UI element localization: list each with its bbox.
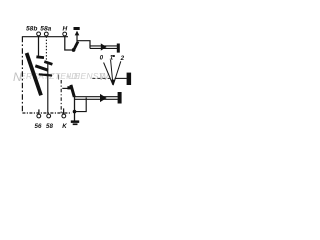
mechanical link dashes <box>92 77 111 79</box>
junction node H <box>72 48 76 52</box>
terminal 58b <box>37 32 41 36</box>
rotary position fan line 2 <box>113 61 121 85</box>
connector socket bar (right) <box>117 44 120 53</box>
junction node lower <box>73 110 77 114</box>
wire upper pair to connector <box>90 45 117 47</box>
lower contact stub <box>62 87 67 89</box>
watermark <box>13 70 110 84</box>
wire H drop <box>65 36 72 50</box>
rotary position fan line 0 <box>104 63 113 86</box>
wire tick terminal K <box>63 108 65 114</box>
terminal 56 <box>37 114 41 118</box>
connector plug arrow (lower) <box>100 94 107 102</box>
rotary position fan line 1 <box>111 60 113 85</box>
connector socket bar (top) <box>74 27 80 30</box>
svg-text:0: 0 <box>100 55 104 62</box>
terminal H <box>63 32 67 36</box>
wire bars to terminal 58 <box>47 63 49 114</box>
wire 58b drop <box>38 36 40 56</box>
position pointer arrow <box>111 80 115 86</box>
lower switch arm <box>71 85 74 97</box>
stub near bar3 <box>58 75 60 80</box>
lower contact dot <box>67 86 70 89</box>
terminal 58a <box>44 32 48 36</box>
wire lower pair to connector <box>75 96 118 98</box>
knob <box>127 73 132 85</box>
svg-text:58: 58 <box>46 123 53 130</box>
wire 58a dotted drop <box>45 37 47 61</box>
terminal K <box>62 114 66 118</box>
svg-text:56: 56 <box>35 123 42 130</box>
connector plug arrow (right) <box>101 43 107 50</box>
ground bar 2 <box>73 123 78 125</box>
wire branch to lower pair <box>75 98 87 112</box>
upper switch arm <box>74 42 78 51</box>
wire lower vertical <box>74 96 76 121</box>
svg-text:58b: 58b <box>26 26 37 33</box>
contact bar position 1 <box>44 62 52 65</box>
enclosure right edge (dashed, partial) <box>60 80 62 113</box>
contact bar position 3 <box>39 74 52 75</box>
ground bar 1 <box>71 120 79 123</box>
actuator shaft <box>115 77 127 79</box>
svg-text:K: K <box>62 123 67 130</box>
wire tick terminal 56 <box>38 109 40 114</box>
fixed contact bar 58b <box>36 55 44 59</box>
enclosure top edge <box>22 36 68 38</box>
switch wiper arm (main) <box>27 53 41 95</box>
svg-text:H: H <box>63 26 68 33</box>
contact bar position 2 <box>35 66 48 70</box>
enclosure bottom edge (dash-dot) <box>22 112 71 114</box>
svg-text:2: 2 <box>120 55 125 62</box>
position tick <box>113 55 115 57</box>
svg-text:58a: 58a <box>40 26 51 33</box>
enclosure left edge (dash-dot) <box>21 37 23 113</box>
connector socket bar (lower) <box>118 92 122 104</box>
wire plug stem to corner <box>77 35 90 49</box>
connector plug arrow (top) <box>75 31 80 36</box>
terminal 58 <box>47 114 51 118</box>
